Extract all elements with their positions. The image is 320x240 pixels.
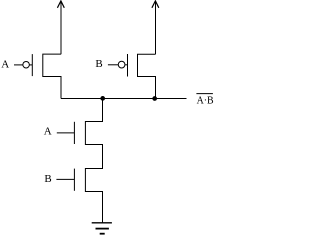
svg-text:A: A	[44, 125, 52, 137]
svg-text:A·B: A·B	[197, 95, 214, 107]
svg-text:A: A	[1, 58, 9, 70]
svg-text:B: B	[44, 173, 51, 185]
svg-text:B: B	[95, 58, 102, 70]
